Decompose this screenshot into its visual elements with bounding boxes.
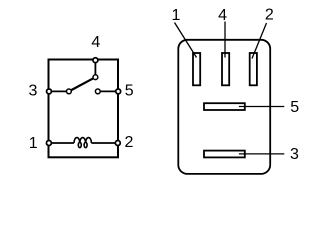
svg-text:3: 3 xyxy=(290,146,299,163)
svg-text:4: 4 xyxy=(218,7,227,24)
inductor L1 (relay coil loops) xyxy=(74,138,91,148)
blade terminal 2 (vertical) xyxy=(250,53,257,85)
svg-text:5: 5 xyxy=(125,83,134,100)
leader line pin 1 xyxy=(175,23,197,58)
svg-text:5: 5 xyxy=(290,99,299,116)
leader line pin 3 xyxy=(239,153,284,155)
wire (pole link: pin 4 to armature pivot) xyxy=(94,60,96,77)
NC contact circle xyxy=(67,89,72,94)
wire (contact row: NO contact to pin 5) xyxy=(98,90,118,92)
blade terminal 1 (vertical) xyxy=(193,53,200,85)
relay case (bottom view outline) xyxy=(178,40,270,174)
switch armature (pole arm from NC contact to pivot) xyxy=(69,77,96,91)
svg-text:3: 3 xyxy=(28,82,37,99)
blade terminal 4 (vertical) xyxy=(222,53,229,85)
terminal circle pin 1 xyxy=(46,141,51,146)
wire (coil to pin 2) xyxy=(91,142,117,144)
svg-text:2: 2 xyxy=(265,7,274,24)
wire (coil row: pin 1 to coil) xyxy=(49,142,74,144)
svg-text:1: 1 xyxy=(171,7,180,24)
terminal circle pin 4 xyxy=(93,58,98,63)
svg-text:1: 1 xyxy=(29,135,38,152)
terminal circle pin 5 xyxy=(116,89,121,94)
svg-text:2: 2 xyxy=(125,134,134,151)
terminal circle pin 2 xyxy=(115,141,120,146)
svg-text:4: 4 xyxy=(91,34,100,51)
pivot circle (common pole) xyxy=(93,75,98,80)
NO contact circle xyxy=(95,89,100,94)
terminal circle pin 3 xyxy=(47,89,52,94)
leader line pin 2 xyxy=(252,23,267,59)
relay body outline K1 (schematic box) xyxy=(49,60,119,158)
blade terminal 5 (horizontal) xyxy=(204,103,245,110)
blade terminal 3 (horizontal) xyxy=(204,151,245,158)
wire (contact row: pin 3 to NC contact) xyxy=(49,90,69,92)
leader line pin 5 xyxy=(239,106,284,108)
leader line pin 4 xyxy=(224,22,226,58)
